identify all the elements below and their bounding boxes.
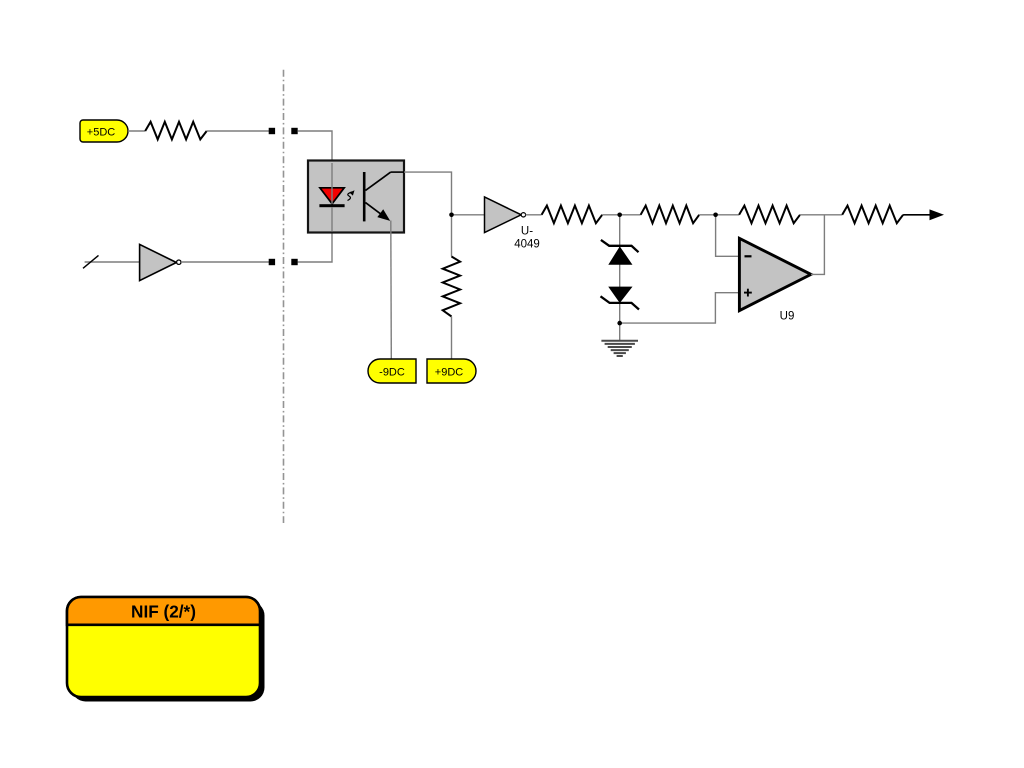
wire buffer to R3 bbox=[526, 214, 542, 216]
boundary pin square right top bbox=[291, 128, 297, 134]
svg-text:NIF (2/*): NIF (2/*) bbox=[131, 602, 196, 622]
ground symbol bbox=[601, 341, 638, 356]
svg-text:+9DC: +9DC bbox=[435, 367, 463, 379]
svg-text:U9: U9 bbox=[780, 311, 795, 323]
wire node C to ground bbox=[619, 323, 621, 341]
zener diode D2 bbox=[601, 240, 639, 264]
wire tag to resistor bbox=[128, 130, 145, 132]
wire emitter down to -9DC bbox=[390, 221, 393, 359]
resistor R4 bbox=[641, 206, 700, 224]
buffer U-4049 bbox=[485, 197, 526, 233]
optocoupler U3 body bbox=[308, 161, 404, 233]
resistor R1 (input series) bbox=[145, 122, 207, 140]
buffer U2 (left driver) bbox=[140, 244, 181, 280]
wire R3 to node A bbox=[602, 214, 620, 216]
output wire with arrow bbox=[903, 214, 931, 216]
wire node B down to op-amp minus input bbox=[716, 215, 740, 256]
power tag -9DC bbox=[368, 359, 416, 383]
wire collector out of opto bbox=[391, 171, 404, 173]
wire R4 to node B bbox=[699, 214, 715, 216]
light coupling squiggle arrow bbox=[348, 192, 353, 201]
wire node B to R5 bbox=[716, 214, 740, 216]
svg-text:U-: U- bbox=[521, 226, 533, 238]
wire node C to op-amp plus input bbox=[620, 293, 740, 323]
op-amp U9 bbox=[739, 238, 811, 310]
power tag +5DC bbox=[80, 120, 128, 142]
resistor R6 (output series) bbox=[842, 206, 903, 224]
wire buffer to boundary pin bbox=[181, 261, 269, 263]
wire LED cathode to lower pin bbox=[298, 206, 332, 262]
resistor R5 (feedback) bbox=[739, 206, 800, 224]
node A junction dot bbox=[617, 213, 622, 218]
svg-text:+5DC: +5DC bbox=[87, 126, 115, 138]
phototransistor Q1 bbox=[363, 172, 391, 221]
boundary pin square left top bbox=[269, 128, 275, 134]
LED D1 inside optocoupler bbox=[319, 163, 344, 231]
svg-text:-9DC: -9DC bbox=[379, 367, 405, 379]
wire junction to pull resistor bbox=[451, 215, 453, 257]
node C junction dot bbox=[617, 321, 622, 326]
resistor R3 bbox=[542, 206, 603, 224]
wire node A to R4 bbox=[620, 214, 641, 216]
zener diode D3 bbox=[601, 287, 640, 309]
note box NIF shadow bbox=[72, 602, 265, 702]
note box NIF body bbox=[67, 597, 260, 697]
wire R5 to R6 with output tap bbox=[800, 214, 842, 216]
node B junction dot bbox=[713, 213, 718, 218]
wire junction to buffer U-4049 bbox=[452, 214, 485, 216]
wire top pin to LED anode bbox=[298, 131, 332, 186]
wire resistor to +9DC tag bbox=[451, 317, 453, 360]
node collector junction bbox=[449, 213, 454, 218]
boundary pin square right bottom bbox=[291, 259, 297, 265]
channel divider dash-dot line bbox=[283, 70, 285, 523]
input stub with slash tick bbox=[85, 261, 140, 263]
wire node A down to zeners bbox=[619, 215, 621, 323]
svg-text:4049: 4049 bbox=[514, 239, 540, 251]
boundary pin square left bottom bbox=[269, 259, 275, 265]
note box NIF header bbox=[67, 597, 260, 625]
wire op-amp output up to feedback node bbox=[811, 215, 824, 275]
power tag +9DC bbox=[427, 359, 476, 383]
wire resistor to boundary pin bbox=[207, 130, 269, 132]
resistor R2 (pull-up to +9DC) bbox=[443, 257, 460, 317]
